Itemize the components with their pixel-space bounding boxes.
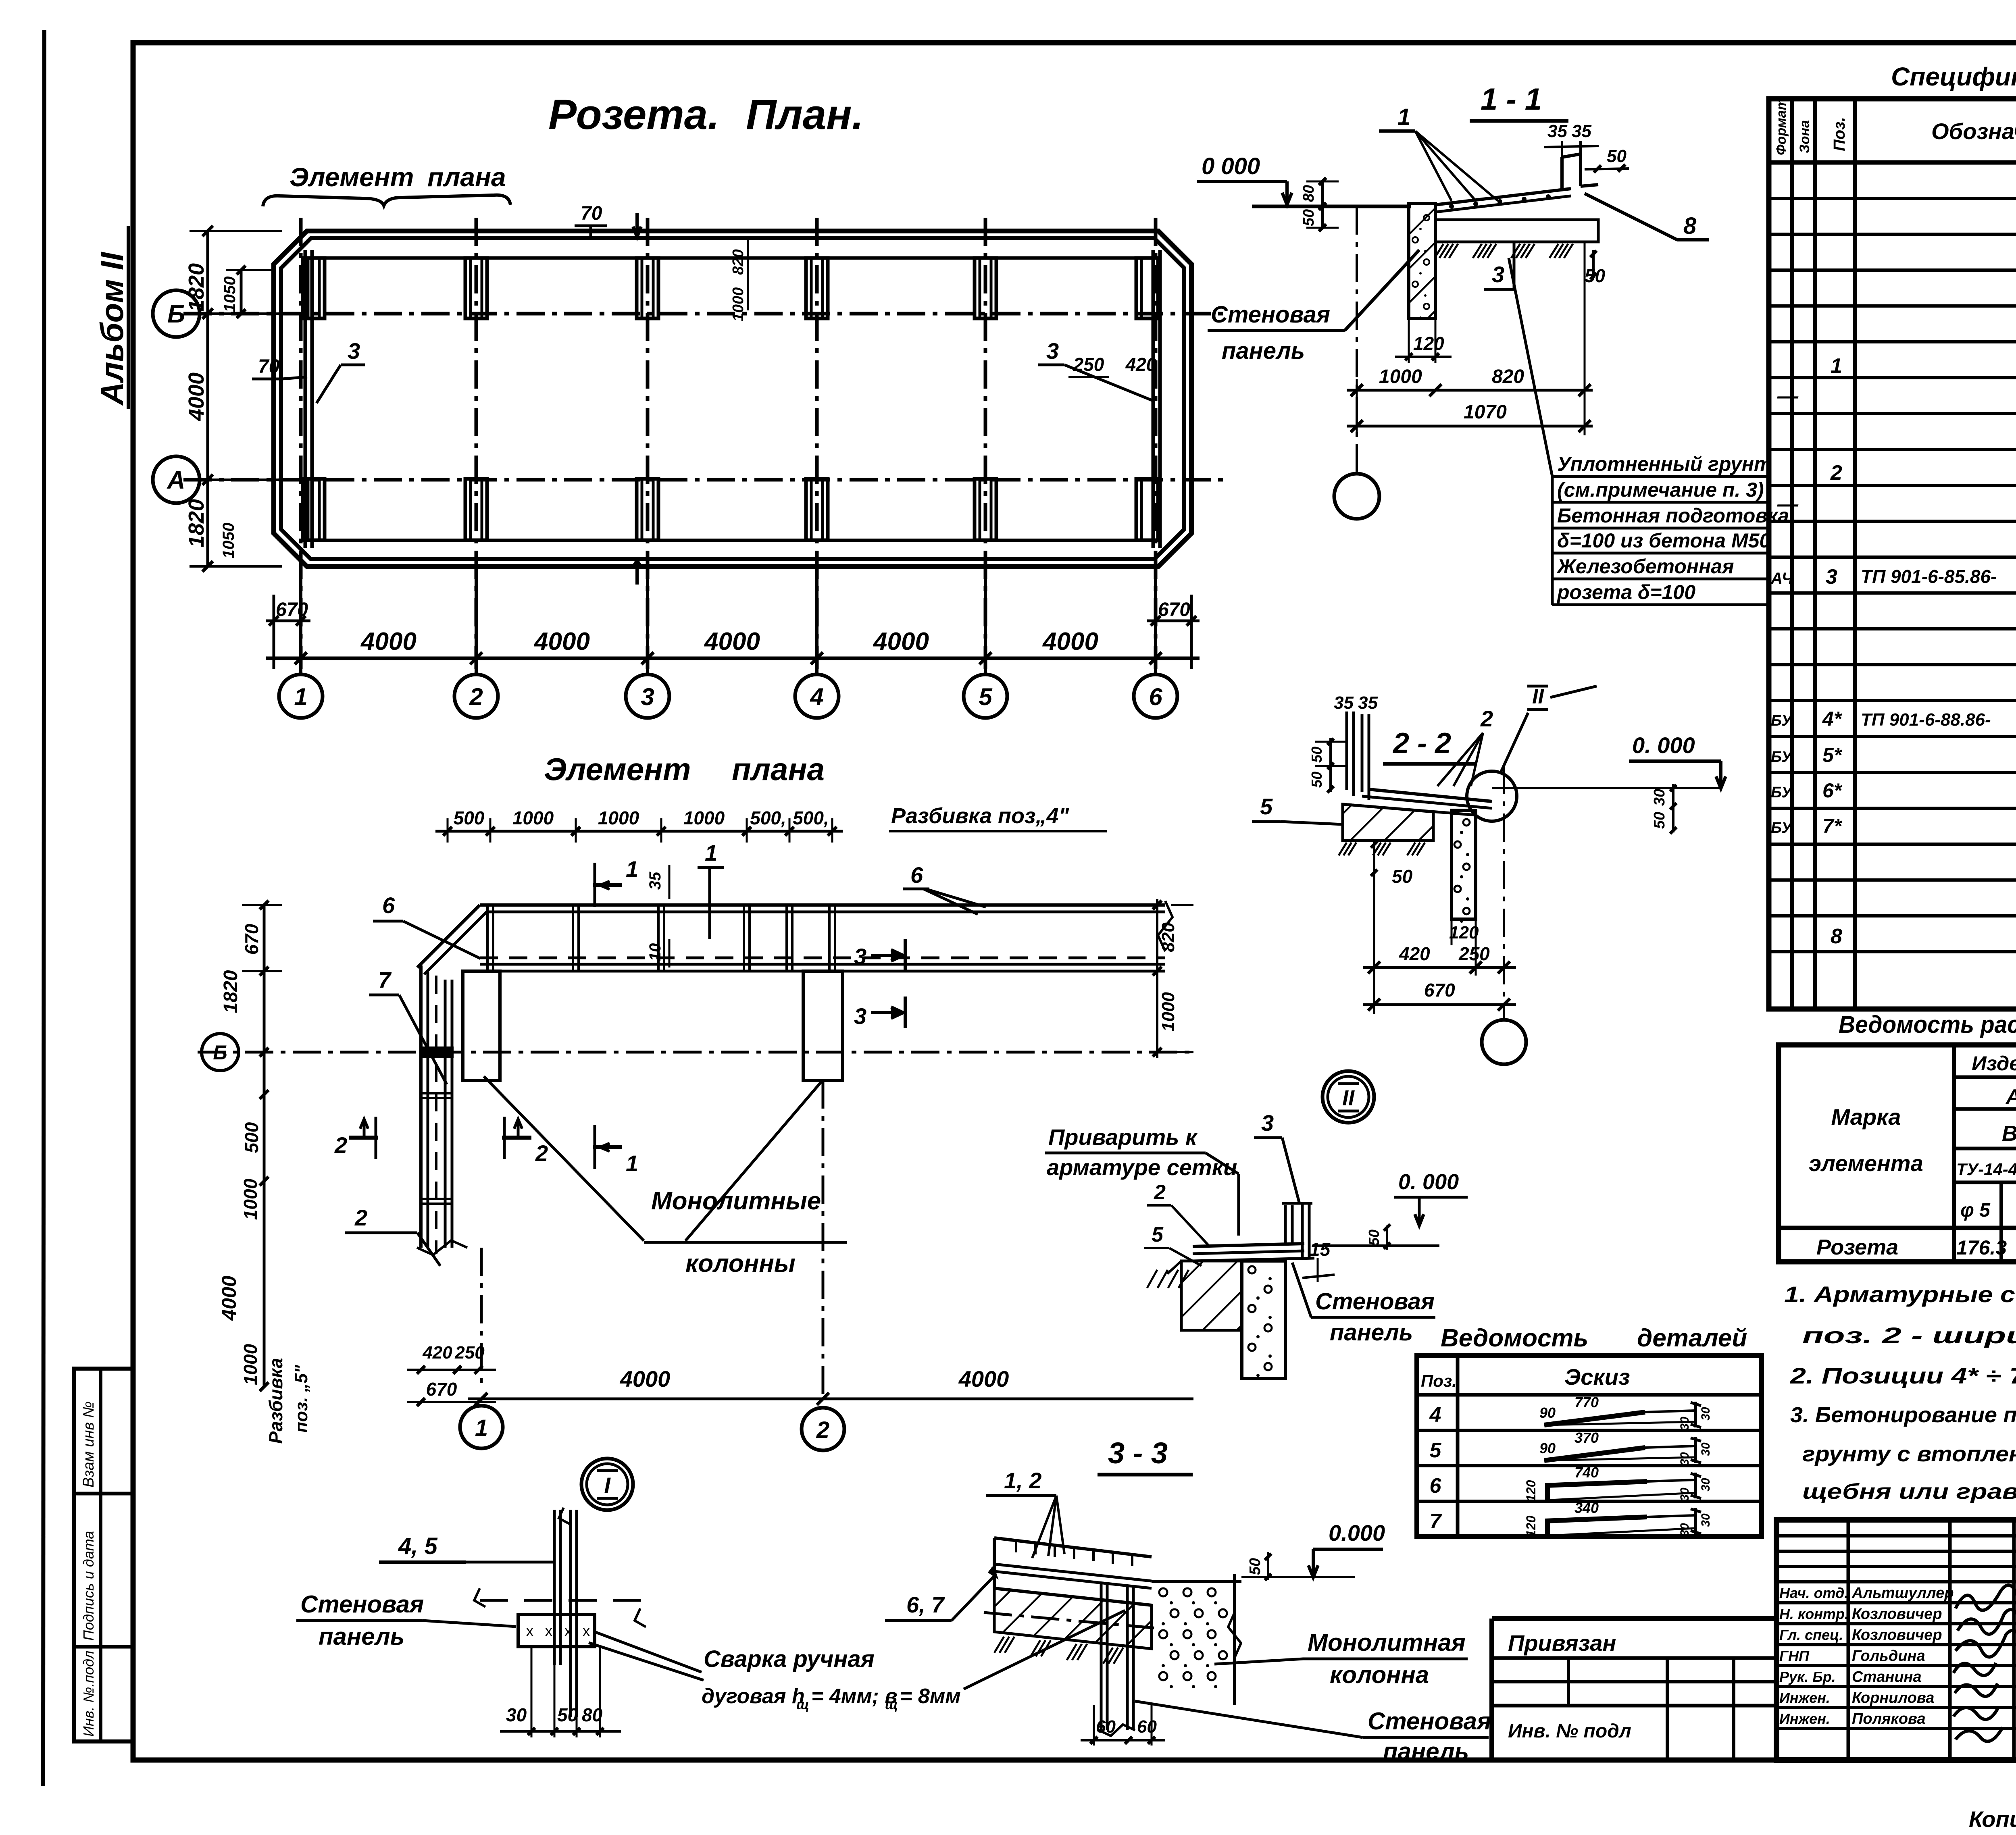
svg-text:ГНП: ГНП (1779, 1648, 1810, 1664)
column stubs on axis Б and А (303, 258, 325, 318)
svg-text:70: 70 (581, 203, 602, 224)
svg-text:Стеновая: Стеновая (1315, 1288, 1435, 1315)
svg-text:3: 3 (1046, 338, 1059, 364)
svg-text:6: 6 (910, 862, 923, 888)
svg-text:Альбом II: Альбом II (94, 252, 130, 406)
ground hatch under 1-1 (1435, 244, 1443, 258)
svg-text:Монолитные: Монолитные (651, 1187, 821, 1215)
svg-text:0. 000: 0. 000 (1632, 732, 1695, 758)
svg-text:ТУ-14-4-659- 75: ТУ-14-4-659- 75 (1956, 1160, 2016, 1179)
svg-text:420: 420 (1399, 943, 1430, 964)
svg-text:1: 1 (475, 1415, 488, 1441)
svg-text:Сварка ручная: Сварка ручная (704, 1646, 875, 1672)
svg-text:50: 50 (1300, 209, 1317, 226)
svg-text:Разбивка: Разбивка (265, 1358, 286, 1444)
spec header row (1769, 160, 2016, 165)
svg-text:8: 8 (1831, 925, 1842, 948)
svg-text:35: 35 (1547, 121, 1567, 141)
svg-text:6: 6 (1430, 1474, 1442, 1498)
svg-text:4000: 4000 (533, 628, 590, 655)
vertical grid axes 1-6 (299, 218, 303, 669)
rosette plan outer wall (double outline) (274, 231, 1191, 566)
hatched bed (3-3) (994, 1588, 1152, 1649)
svg-text:x: x (545, 1623, 552, 1639)
svg-text:Бетонная подготовка: Бетонная подготовка (1557, 504, 1789, 527)
svg-text:АЧ: АЧ (1770, 570, 1793, 587)
svg-text:II: II (1532, 685, 1544, 708)
svg-text:30: 30 (1699, 1513, 1712, 1527)
svg-text:колонна: колонна (1330, 1661, 1429, 1688)
svg-text:Инв. № подл: Инв. № подл (1508, 1721, 1631, 1742)
svg-text:А: А (167, 466, 185, 494)
svg-text:БУ: БУ (1771, 820, 1793, 836)
svg-text:4000: 4000 (958, 1366, 1009, 1392)
right dims 30 50 (2-2) (1672, 784, 1674, 832)
monolithic column with pebbles (3-3) (1152, 1580, 1241, 1583)
svg-text:50: 50 (1607, 146, 1627, 166)
svg-text:Розета: Розета (1816, 1235, 1898, 1259)
svg-text:2 - 2: 2 - 2 (1392, 727, 1451, 759)
svg-text:элемента: элемента (1809, 1151, 1923, 1176)
title block outer (1776, 1520, 2016, 1760)
svg-text:30: 30 (506, 1704, 527, 1725)
svg-text:1050: 1050 (220, 523, 237, 559)
svg-text:дуговая h: дуговая h (702, 1685, 805, 1708)
svg-text:4*: 4* (1822, 707, 1843, 730)
svg-text:1 - 1: 1 - 1 (1481, 82, 1542, 117)
top wall small dims 820/1000 (747, 240, 749, 310)
svg-text:6: 6 (1149, 683, 1162, 710)
svg-text:35: 35 (1358, 693, 1378, 713)
svg-text:60: 60 (1096, 1717, 1116, 1737)
svg-text:Гл. спец.: Гл. спец. (1779, 1627, 1843, 1643)
svg-text:670: 670 (276, 599, 308, 620)
svg-text:35: 35 (646, 872, 664, 890)
svg-text:5: 5 (979, 683, 993, 710)
svg-text:Инв. №.подл: Инв. №.подл (80, 1651, 97, 1737)
monolithic columns (plan) (463, 971, 500, 1080)
svg-text:x: x (526, 1623, 533, 1639)
bedding layer (1-1) (1435, 220, 1598, 242)
rebar ticks on slab top (3-3) (1015, 1540, 1017, 1552)
detail II bubble (1322, 1071, 1374, 1123)
svg-text:Элемент: Элемент (289, 162, 414, 192)
svg-text:740: 740 (1574, 1464, 1599, 1481)
svg-text:3 - 3: 3 - 3 (1108, 1436, 1168, 1470)
wall panel (hatched) of 1-1 (1409, 204, 1435, 318)
slab (3-3) sloping (993, 1538, 996, 1588)
svg-text:1000: 1000 (1379, 366, 1422, 387)
axis bubble А (153, 456, 200, 503)
dims 60 60 (3-3) (1093, 1705, 1095, 1746)
svg-text:6*: 6* (1822, 779, 1843, 802)
svg-text:0. 000: 0. 000 (1398, 1170, 1459, 1194)
wall pebble dots (1-1) (1424, 215, 1429, 221)
plan band (wall strip) horizontal (480, 903, 1165, 907)
svg-text:3. Бетонирование производить: 3. Бетонирование производить по уплотнен… (1790, 1403, 2016, 1427)
svg-text:Арматура класса: Арматура класса (2005, 1085, 2016, 1109)
svg-text:50: 50 (1366, 1230, 1382, 1246)
axis line + bubble (1-1) (1356, 206, 1358, 472)
svg-text:50: 50 (557, 1704, 578, 1725)
svg-text:30: 30 (1678, 1523, 1691, 1537)
ground hatch (detail II) (1147, 1270, 1157, 1288)
svg-text:3: 3 (1492, 262, 1504, 287)
svg-text:5: 5 (1260, 794, 1273, 819)
svg-text:120: 120 (1413, 333, 1444, 354)
svg-text:7: 7 (1430, 1510, 1442, 1533)
svg-text:1820: 1820 (184, 499, 208, 547)
svg-text:1000: 1000 (240, 1178, 261, 1220)
svg-text:4000: 4000 (218, 1275, 240, 1321)
svg-text:2: 2 (816, 1417, 829, 1443)
svg-text:90: 90 (1539, 1404, 1556, 1421)
svg-text:арматуре сетки: арматуре сетки (1047, 1155, 1237, 1180)
svg-text:грунту с втопленным в нег: грунту с втопленным в него на глубину не… (1802, 1442, 2016, 1466)
hatched bed (2-2) (1343, 804, 1433, 841)
svg-text:Приварить к: Приварить к (1048, 1124, 1198, 1150)
band corner diagonals (417, 905, 480, 967)
svg-text:6, 7: 6, 7 (906, 1592, 945, 1617)
svg-text:50: 50 (1392, 866, 1413, 887)
svg-text:820: 820 (1158, 922, 1178, 952)
svg-text:1050: 1050 (221, 277, 239, 312)
detail I panel lines (553, 1510, 556, 1665)
svg-text:Вр 1: Вр 1 (2002, 1121, 2016, 1146)
svg-text:Ведомость: Ведомость (1441, 1324, 1588, 1352)
svg-text:50: 50 (1651, 812, 1668, 829)
svg-text:50: 50 (1247, 1558, 1264, 1575)
vertical band (wall strip) down (419, 965, 423, 1248)
svg-text:Монолитная: Монолитная (1308, 1629, 1466, 1656)
svg-text:1820: 1820 (220, 970, 242, 1013)
svg-text:0.000: 0.000 (1329, 1520, 1385, 1546)
svg-text:8: 8 (1683, 213, 1697, 239)
svg-text:Изделия арматурные: Изделия арматурные (1972, 1052, 2016, 1075)
svg-text:820: 820 (730, 249, 747, 275)
svg-text:1000: 1000 (512, 807, 554, 828)
svg-text:Копировал: Копировал (1969, 1806, 2016, 1832)
svg-text:Н. контр.: Н. контр. (1779, 1606, 1849, 1622)
svg-text:2. Позиции 4* ÷ 7* см. Ведом: 2. Позиции 4* ÷ 7* см. Ведомость деталей (1790, 1363, 2016, 1388)
svg-text:Спецификация: Спецификация (1891, 62, 2016, 91)
section cut arrows on plan (635, 213, 639, 235)
svg-text:30: 30 (1699, 1407, 1712, 1421)
svg-text:176.3: 176.3 (1956, 1236, 2007, 1259)
svg-text:= 4мм; в: = 4мм; в (811, 1685, 898, 1708)
dim 50 (3-3) (1267, 1552, 1269, 1580)
svg-text:Разбивка поз„4": Разбивка поз„4" (891, 804, 1070, 828)
670 end dimensions of plan (273, 595, 275, 669)
svg-text:4000: 4000 (704, 628, 760, 655)
section 1-1 slab (1252, 205, 1411, 208)
svg-text:2: 2 (1830, 461, 1842, 485)
dims 1000 820 1070 (1-1) (1356, 379, 1358, 435)
right edge dims 820 / 1000 (1156, 899, 1158, 1058)
axis Б of detail (198, 1051, 1189, 1054)
svg-text:Подпись и дата: Подпись и дата (80, 1531, 97, 1641)
svg-text:4000: 4000 (873, 628, 929, 655)
wall upstand (2-2) (1345, 712, 1348, 790)
svg-text:250: 250 (1073, 354, 1104, 375)
svg-text:3: 3 (854, 944, 866, 969)
svg-text:4000: 4000 (1042, 628, 1098, 655)
svg-text:ТП 901-6-85.86-: ТП 901-6-85.86- (1861, 566, 1997, 587)
svg-text:30: 30 (1678, 1488, 1691, 1501)
svg-text:5: 5 (1152, 1223, 1164, 1246)
svg-text:1: 1 (626, 856, 638, 882)
svg-text:x: x (583, 1623, 590, 1639)
axis Б dash-dot line (183, 312, 1226, 316)
svg-text:поз. „5": поз. „5" (292, 1365, 311, 1433)
svg-text:щ: щ (885, 1697, 898, 1712)
svg-text:Козловичер: Козловичер (1852, 1606, 1942, 1623)
svg-text:370: 370 (1574, 1429, 1599, 1446)
break marks (detail I) (474, 1588, 485, 1607)
svg-text:60: 60 (1137, 1717, 1157, 1737)
svg-text:420: 420 (422, 1343, 452, 1363)
svg-text:II: II (1342, 1086, 1355, 1110)
detail II slab (1193, 1244, 1304, 1246)
svg-text:1000: 1000 (1158, 992, 1178, 1032)
svg-text:70: 70 (258, 356, 280, 377)
ground hatch (2-2) (1339, 843, 1347, 855)
hatched concrete (detail II) (1181, 1261, 1242, 1330)
svg-text:2: 2 (1154, 1181, 1166, 1204)
svg-text:БУ: БУ (1771, 784, 1793, 801)
svg-text:120: 120 (1524, 1515, 1538, 1537)
svg-text:4, 5: 4, 5 (398, 1533, 437, 1559)
svg-text:φ 5: φ 5 (1960, 1200, 1991, 1221)
svg-text:3: 3 (1261, 1110, 1274, 1136)
svg-text:Марка: Марка (1831, 1104, 1901, 1130)
4000 dim of detail (480, 1248, 483, 1390)
svg-text:820: 820 (1492, 366, 1524, 387)
svg-text:Привязан: Привязан (1508, 1630, 1616, 1656)
svg-text:Полякова: Полякова (1852, 1710, 1926, 1727)
svg-text:4000: 4000 (184, 372, 208, 421)
svg-text:поз. 2 - шириной 430 мм.: поз. 2 - шириной 430 мм. (1802, 1323, 2016, 1348)
svg-text:30: 30 (1699, 1478, 1712, 1492)
svg-text:90: 90 (1539, 1440, 1556, 1456)
svg-text:1, 2: 1, 2 (1004, 1468, 1041, 1493)
svg-text:0 000: 0 000 (1202, 153, 1260, 179)
svg-text:500: 500 (241, 1122, 262, 1153)
svg-text:3: 3 (1826, 565, 1837, 589)
svg-text:розета δ=100: розета δ=100 (1556, 581, 1695, 603)
svg-text:1: 1 (626, 1151, 638, 1176)
svg-text:Эскиз: Эскиз (1564, 1364, 1630, 1390)
svg-text:панель: панель (1222, 338, 1305, 364)
svg-text:2: 2 (535, 1140, 548, 1166)
concrete column (2-2) (1452, 810, 1476, 919)
axis А dash-dot line (183, 478, 1226, 482)
svg-text:БУ: БУ (1771, 712, 1793, 729)
svg-text:30: 30 (1678, 1417, 1691, 1430)
detail I bubble (581, 1458, 633, 1510)
top dim chain 500/1000/1000/1000/500/500 (435, 830, 843, 833)
svg-text:Рук. Бр.: Рук. Бр. (1779, 1669, 1836, 1685)
svg-text:120: 120 (1449, 923, 1479, 942)
svg-text:Нач. отд.: Нач. отд. (1779, 1585, 1848, 1601)
svg-text:80: 80 (582, 1704, 603, 1725)
inner wall edge lines (304, 250, 307, 548)
svg-text:Стеновая: Стеновая (1211, 302, 1330, 328)
svg-text:250: 250 (1458, 943, 1490, 964)
svg-text:Уплотненный грунт: Уплотненный грунт (1557, 453, 1772, 475)
details table frame (1417, 1355, 1762, 1537)
svg-text:Элемент: Элемент (544, 751, 691, 787)
detail II circle on 2-2 (1467, 771, 1517, 821)
svg-text:Козловичер: Козловичер (1852, 1627, 1942, 1644)
svg-text:2: 2 (334, 1132, 347, 1158)
sloped slab top (1-1) (1435, 189, 1571, 205)
svg-text:50: 50 (1308, 772, 1325, 788)
svg-text:500,: 500, (793, 807, 829, 828)
spec table frame (1769, 99, 2016, 1009)
svg-text:План.: План. (746, 91, 864, 138)
svg-text:670: 670 (1424, 980, 1455, 1001)
svg-text:Обозначение: Обозначение (1931, 119, 2016, 144)
signature table (1847, 1520, 1850, 1760)
svg-text:ТП 901-6-88.86-: ТП 901-6-88.86- (1861, 710, 1991, 730)
svg-text:1000: 1000 (240, 1344, 261, 1385)
svg-text:1: 1 (1831, 354, 1842, 378)
svg-text:Розета.: Розета. (548, 91, 719, 138)
outer left trim line (43, 30, 44, 1786)
axis bubble Б (153, 290, 200, 337)
svg-text:Станина: Станина (1852, 1669, 1922, 1685)
grid dimension line with 4000 labels (266, 657, 1200, 660)
svg-text:670: 670 (241, 924, 262, 955)
svg-text:500: 500 (454, 807, 485, 828)
svg-text:Б: Б (213, 1041, 227, 1064)
privyazan block (1492, 1616, 1776, 1621)
grid bubbles 1-6 (299, 566, 302, 674)
svg-text:4000: 4000 (360, 628, 417, 655)
svg-text:4000: 4000 (620, 1366, 671, 1392)
dashed axis (detail I) (480, 1599, 653, 1602)
dims 30 50 80 (detail I) (531, 1647, 533, 1737)
ground hatch (3-3) (994, 1637, 1004, 1653)
svg-text:50: 50 (1308, 747, 1325, 763)
band break mark right (1158, 901, 1173, 951)
svg-text:щебня или гравия крупность: щебня или гравия крупностью 40-60 мм. (1802, 1479, 2016, 1504)
left stamp table (Взам инв / Подпись и дата / Инв № подл) (74, 1369, 133, 1741)
svg-text:3: 3 (854, 1003, 866, 1029)
svg-text:(см.примечание п. 3): (см.примечание п. 3) (1557, 479, 1764, 501)
svg-text:1: 1 (1397, 104, 1410, 130)
wall panel (detail II) (1284, 1205, 1287, 1244)
svg-text:панель: панель (1330, 1319, 1413, 1346)
svg-text:7: 7 (378, 967, 392, 992)
svg-text:1000: 1000 (730, 287, 747, 322)
svg-text:—: — (1777, 493, 1799, 516)
svg-text:= 8мм: = 8мм (900, 1685, 961, 1708)
svg-text:Альтшуллер: Альтшуллер (1851, 1585, 1954, 1602)
spec table row lines (1769, 197, 2016, 200)
transverse mesh ticks in band (486, 905, 489, 971)
svg-text:δ=100 из бетона М50: δ=100 из бетона М50 (1557, 529, 1770, 552)
svg-text:Гольдина: Гольдина (1852, 1648, 1925, 1664)
svg-text:2: 2 (1480, 706, 1493, 731)
svg-text:15: 15 (1310, 1239, 1331, 1260)
svg-text:120: 120 (1524, 1480, 1538, 1502)
left dimension chain of plan (1820/4000/1820, 1050) (206, 231, 209, 566)
svg-text:плана: плана (732, 751, 825, 787)
svg-text:панель: панель (1383, 1738, 1469, 1765)
svg-text:5*: 5* (1822, 744, 1843, 766)
svg-text:Зона: Зона (1797, 120, 1812, 153)
svg-text:1070: 1070 (1464, 402, 1507, 423)
leader to columns: Монолитные колонны (484, 1076, 644, 1241)
svg-text:БУ: БУ (1771, 749, 1793, 766)
svg-text:Формат: Формат (1774, 98, 1789, 155)
svg-text:1: 1 (705, 840, 717, 865)
svg-text:4: 4 (810, 683, 823, 710)
svg-text:Корнилова: Корнилова (1852, 1689, 1934, 1706)
svg-text:x: x (564, 1623, 572, 1639)
dim 50 (detail II) (1386, 1225, 1388, 1250)
svg-text:4: 4 (1429, 1403, 1441, 1427)
svg-text:Ведомость расхода стали на: Ведомость расхода стали на элемент, кг (1839, 1011, 2016, 1038)
signatures squiggles (1956, 1585, 2016, 1610)
svg-text:670: 670 (426, 1379, 457, 1400)
slab right upturn (1-1) (1560, 157, 1564, 189)
steel table frame (1779, 1045, 2016, 1262)
dims 420 250 670 (2-2) (1373, 887, 1375, 1014)
svg-text:770: 770 (1574, 1394, 1599, 1411)
svg-text:Стеновая: Стеновая (1368, 1708, 1491, 1735)
leader from detail I to weld text (589, 1643, 704, 1680)
weld leader (detail I) (595, 1632, 702, 1672)
svg-text:Инжен.: Инжен. (1779, 1689, 1830, 1706)
svg-text:35: 35 (1572, 121, 1591, 141)
section mark 1 (bottom) (593, 1145, 622, 1149)
svg-text:колонны: колонны (685, 1250, 796, 1277)
svg-text:30: 30 (1651, 789, 1668, 806)
axis + bubble (2-2) (1503, 766, 1505, 1019)
dims 50 50 left of upstand (2-2) (1329, 738, 1332, 792)
svg-text:Взам инв №: Взам инв № (80, 1401, 97, 1488)
section mark 1 (top) (593, 883, 622, 887)
svg-text:5: 5 (1430, 1439, 1442, 1462)
svg-text:500,: 500, (750, 807, 786, 828)
svg-text:6: 6 (382, 893, 395, 918)
left dims 80 50 (1-1) (1321, 181, 1324, 228)
slab (2-2) (1369, 789, 1492, 801)
svg-text:Б: Б (167, 300, 185, 328)
svg-text:1: 1 (294, 683, 307, 710)
wall panel lines (3-3) (1100, 1584, 1103, 1730)
svg-text:30: 30 (1699, 1442, 1712, 1456)
svg-text:3: 3 (348, 338, 360, 364)
svg-text:340: 340 (1574, 1500, 1599, 1516)
svg-text:1000: 1000 (598, 807, 639, 828)
svg-text:3: 3 (641, 683, 654, 710)
brace under Элемент плана (263, 195, 510, 206)
svg-text:80: 80 (1300, 185, 1317, 202)
section mark 2 (right) (502, 1136, 531, 1140)
rebar dots in slab 1-1 (1449, 204, 1454, 209)
svg-text:1. Арматурные сетки поз.„1": 1. Арматурные сетки поз.„1" резать ширин… (1784, 1282, 2016, 1307)
svg-text:30: 30 (1678, 1452, 1691, 1466)
svg-text:деталей: деталей (1637, 1324, 1747, 1352)
svg-text:щ: щ (796, 1697, 809, 1712)
svg-text:панель: панель (319, 1623, 404, 1650)
left dim chain of detail (263, 905, 266, 1052)
svg-text:2: 2 (469, 683, 483, 710)
